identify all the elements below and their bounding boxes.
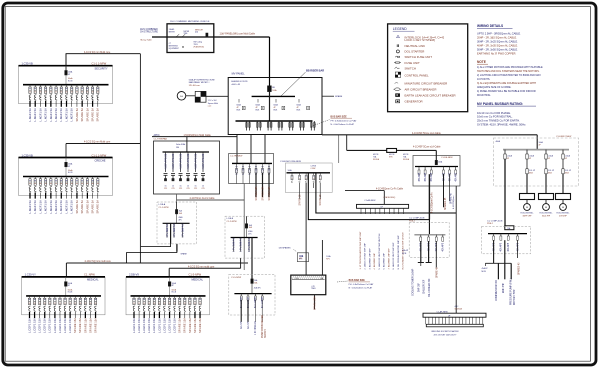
SPD fuse box xyxy=(387,149,397,153)
board L.DB-B enclosure xyxy=(225,216,265,258)
svg-text:400A: 400A xyxy=(496,140,501,143)
wire spare drop LDB-A xyxy=(176,244,178,252)
distribution board MEDICAL2 enclosure xyxy=(126,277,210,315)
MV panel enclosure xyxy=(228,78,322,135)
svg-text:SP.ARE 5A: SP.ARE 5A xyxy=(80,108,84,122)
svg-text:50HP - 2R, 3x50 SQmm AL.CABLE.: 50HP - 2R, 3x50 SQmm AL.CABLE. xyxy=(477,47,518,51)
svg-text:4-1C/2 SQ mm multi core: 4-1C/2 SQ mm multi core xyxy=(188,265,215,268)
svg-text:SP.ARE 15A: SP.ARE 15A xyxy=(88,318,92,333)
svg-text:COOLING TOWER 2x5HP: COOLING TOWER 2x5HP xyxy=(413,268,415,296)
svg-text:4.5SF APG 25: 4.5SF APG 25 xyxy=(194,153,197,169)
busbar CB1 xyxy=(414,234,445,236)
leader BB RISER BAR xyxy=(281,72,306,96)
svg-text:4P5: 4P5 xyxy=(248,234,251,236)
svg-text:2. LAGO 4T UNIT 5HP 2HP: 2. LAGO 4T UNIT 5HP 2HP xyxy=(364,243,367,270)
svg-text:20HP - 2R, 3&5 SQmm AL.CABLE.: 20HP - 2R, 3&5 SQmm AL.CABLE. xyxy=(477,36,517,40)
svg-text:L.CGF1 15A: L.CGF1 15A xyxy=(142,318,146,333)
wire metering to MV panel xyxy=(269,37,271,86)
svg-text:C25: C25 xyxy=(171,188,174,190)
svg-text:L.NGF1 5A: L.NGF1 5A xyxy=(54,108,58,122)
svg-text:BUS BAR SIZE: BUS BAR SIZE xyxy=(349,279,366,282)
svg-text:PRESSURE PUMP (P.M.): PRESSURE PUMP (P.M.) xyxy=(511,278,513,305)
svg-text:45A 4P5: 45A 4P5 xyxy=(418,172,421,181)
svg-text:SP.ARE 5A: SP.ARE 5A xyxy=(85,108,89,122)
MCB outgoing row MEDICAL2 xyxy=(133,296,135,298)
svg-text:BUS BAR SIZE: BUS BAR SIZE xyxy=(331,115,348,118)
svg-text:1.C35-VB: 1.C35-VB xyxy=(22,62,34,66)
svg-text:PH : 0.8x50x10mm Cu FLAT: PH : 0.8x50x10mm Cu FLAT xyxy=(331,120,358,123)
svg-text:1 Pc 3kW A/C: 1 Pc 3kW A/C xyxy=(248,237,251,252)
svg-text:C1-1-NPW: C1-1-NPW xyxy=(159,207,169,209)
motor M1 xyxy=(524,204,531,211)
svg-text:L.NGF1 5A: L.NGF1 5A xyxy=(49,108,53,122)
svg-text:5. LAGO OF UNIT 5HP 5HP UNIT 5: 5. LAGO OF UNIT 5HP 5HP UNIT 5H xyxy=(378,233,381,269)
svg-text:C25: C25 xyxy=(201,188,204,190)
UF2 tap-offs xyxy=(425,317,427,324)
board C1-5-NPW enclosure xyxy=(229,274,275,315)
svg-text:EARTHING No.'8' PWG COPPER.: EARTHING No.'8' PWG COPPER. xyxy=(477,51,516,55)
svg-text:SP.ARE 5A: SP.ARE 5A xyxy=(75,108,79,122)
incomer C1-5-NPW xyxy=(251,279,254,284)
CB2 outgoing bus xyxy=(485,262,511,264)
UF1 tap-offs xyxy=(360,208,362,214)
svg-text:C-NW: C-NW xyxy=(310,168,315,170)
svg-text:C1-AF-NEW: C1-AF-NEW xyxy=(364,199,375,202)
svg-text:ACJ 15: ACJ 15 xyxy=(247,321,250,329)
APFC incomer xyxy=(186,137,188,152)
svg-text:SP.ARE 15A: SP.ARE 15A xyxy=(73,318,77,333)
svg-text:FUSE UNIT: FUSE UNIT xyxy=(405,61,420,65)
board C1-TR-NEW enclosure xyxy=(229,154,274,184)
svg-text:10 POINTS.: 10 POINTS. xyxy=(477,78,490,81)
svg-text:L.CGF1 15A: L.CGF1 15A xyxy=(43,318,47,333)
svg-text:M: M xyxy=(562,207,564,209)
svg-text:4.5SF APG 25: 4.5SF APG 25 xyxy=(164,153,167,169)
wire feeder medical boards xyxy=(66,262,248,264)
busbar MEDICAL2 incoming xyxy=(126,276,210,278)
MCB outgoing row SECURITY xyxy=(29,85,31,87)
svg-text:C1-3-NPW: C1-3-NPW xyxy=(189,273,202,277)
svg-text:SF/45A: SF/45A xyxy=(373,158,380,161)
svg-text:SPARE 100A: SPARE 100A xyxy=(313,296,316,310)
svg-text:SP.ARE 5A: SP.ARE 5A xyxy=(80,200,84,214)
box 150A spare xyxy=(297,253,308,262)
svg-text:L.NGF1 5A: L.NGF1 5A xyxy=(70,200,74,214)
svg-text:11kV COMBINED METERING CUBICLE: 11kV COMBINED METERING CUBICLE xyxy=(170,21,210,23)
svg-text:SP.ARE 5A: SP.ARE 5A xyxy=(85,200,89,214)
busbar SECURITY internal xyxy=(23,84,109,86)
svg-text:L.NGF1 5A: L.NGF1 5A xyxy=(54,200,58,214)
svg-text:AIR CIRCUIT BREAKER: AIR CIRCUIT BREAKER xyxy=(405,87,437,91)
board C1-DB-NEW enclosure xyxy=(413,156,460,187)
incomer C1-DB-NEW xyxy=(435,150,437,160)
svg-text:C1-5-NPW: C1-5-NPW xyxy=(231,277,241,279)
svg-text:4) PANEL BOARD WILL BE SUITABL: 4) PANEL BOARD WILL BE SUITABLE FOR INDO… xyxy=(477,90,536,93)
svg-text:EARTH LEAKAGE CIRCUIT BREAKER: EARTH LEAKAGE CIRCUIT BREAKER xyxy=(405,93,456,97)
svg-text:MINIATURE CIRCUIT BREAKER: MINIATURE CIRCUIT BREAKER xyxy=(405,82,448,86)
svg-text:C1..NPW: C1..NPW xyxy=(84,273,95,277)
svg-text:SUPPLY: SUPPLY xyxy=(265,329,267,338)
svg-text:L.NGF1 5A: L.NGF1 5A xyxy=(59,108,63,122)
distribution board MEDICAL1 enclosure xyxy=(22,277,105,315)
svg-text:L.NGF1 5A: L.NGF1 5A xyxy=(28,108,32,122)
svg-text:C1-1.1-NPW: C1-1.1-NPW xyxy=(92,153,107,157)
svg-text:3) ALL EQUIPMENTS ARE DOUBLE E: 3) ALL EQUIPMENTS ARE DOUBLE EARTHED WIT… xyxy=(477,82,536,85)
svg-text:L.CGF1 15A: L.CGF1 15A xyxy=(132,318,136,333)
svg-text:L.CGF1 15A: L.CGF1 15A xyxy=(137,318,141,333)
svg-text:SPARES 15A: SPARES 15A xyxy=(268,186,271,201)
svg-text:30x4 7HP: 30x4 7HP xyxy=(542,216,551,218)
75A incomer box CB2 xyxy=(505,226,514,230)
wire APFC aux to LDB-B riser xyxy=(177,199,245,201)
svg-text:LEGEND: LEGEND xyxy=(393,27,407,31)
svg-text:N : 0.8x25x6mm Cu FLAT: N : 0.8x25x6mm Cu FLAT xyxy=(331,123,355,126)
svg-text:MOUNTING.: MOUNTING. xyxy=(477,94,491,97)
svg-text:LOCK 1 KEY SYSTEM]: LOCK 1 KEY SYSTEM] xyxy=(405,38,436,42)
svg-text:4-1C/4SF 5Core xLA-Cable: 4-1C/4SF 5Core xLA-Cable xyxy=(413,146,441,149)
leader BUS BAR SIZE MV xyxy=(311,120,330,127)
svg-text:L.CGF1 15A: L.CGF1 15A xyxy=(27,318,31,333)
svg-text:MEDICAL: MEDICAL xyxy=(87,278,99,282)
svg-text:L.NGF1 5A: L.NGF1 5A xyxy=(44,200,48,214)
wire L.DB-B to C1-5-NPW xyxy=(251,258,253,279)
svg-text:L.CGF1 15A: L.CGF1 15A xyxy=(48,318,52,333)
MCB outgoing row CRECHE xyxy=(29,177,31,179)
MCB outgoing row MEDICAL1 xyxy=(29,296,31,298)
svg-text:Muncy Table: Muncy Table xyxy=(141,40,153,42)
C1-DB-F7 motor branches xyxy=(504,150,506,154)
svg-text:EMF 3HP: EMF 3HP xyxy=(503,283,505,293)
board CB1 enclosure xyxy=(409,223,449,258)
svg-text:KP5: KP5 xyxy=(326,259,329,261)
heavy riser A to compressor board xyxy=(308,173,429,235)
MV incomer fuse switch xyxy=(268,86,272,92)
wire spare CB2 xyxy=(517,240,519,258)
svg-text:SF/45A: SF/45A xyxy=(403,158,410,161)
svg-text:L.CGF1 15A: L.CGF1 15A xyxy=(162,318,166,333)
svg-text:6. BLOWER 2HP: 6. BLOWER 2HP xyxy=(384,253,386,270)
wire feeder C1-DB-NEW xyxy=(346,135,348,151)
wires MV panel to C1-TR-NEW xyxy=(236,135,238,164)
svg-text:L.NGF1 5A: L.NGF1 5A xyxy=(44,108,48,122)
svg-text:SP.ARE 5A: SP.ARE 5A xyxy=(96,200,100,214)
svg-text:9. OIL COOLING MOTOR 5HP 3HP: 9. OIL COOLING MOTOR 5HP 3HP xyxy=(398,235,400,270)
changeover outgoing spare xyxy=(314,295,316,310)
svg-text:2.DB-V9: 2.DB-V9 xyxy=(129,273,139,277)
busbar C1-TR-NEW xyxy=(232,162,272,164)
motor M2 xyxy=(543,204,550,211)
svg-text:TRBL: TRBL xyxy=(184,33,188,35)
svg-text:METER: METER xyxy=(184,31,190,33)
svg-text:4P5: 4P5 xyxy=(178,219,181,221)
svg-text:45A 4P5: 45A 4P5 xyxy=(254,287,261,290)
svg-text:1 Pc 3kW A/C: 1 Pc 3kW A/C xyxy=(232,237,235,252)
svg-text:GENERATOR: GENERATOR xyxy=(405,100,423,104)
svg-text:L.CGF1 15A: L.CGF1 15A xyxy=(147,318,151,333)
svg-text:L.CGF1 15A: L.CGF1 15A xyxy=(53,318,57,333)
svg-text:1 Pc 3kW A/C: 1 Pc 3kW A/C xyxy=(166,223,169,238)
svg-text:L.NGF1 5A: L.NGF1 5A xyxy=(70,108,74,122)
svg-text:4-1C/6SQmm Cu-Fx: 4-1C/6SQmm Cu-Fx xyxy=(432,192,434,213)
svg-text:3. BLOWER 2HP 5HP: 3. BLOWER 2HP 5HP xyxy=(369,248,371,270)
svg-text:(PLANTRON): (PLANTRON) xyxy=(194,45,205,48)
incomer breaker CRECHE xyxy=(65,158,67,177)
svg-text:OH STRUCTURE: OH STRUCTURE xyxy=(140,32,158,34)
svg-text:EQUIPMENT: EQUIPMENT xyxy=(169,48,179,50)
svg-text:A-FDU 5: A-FDU 5 xyxy=(242,165,245,175)
svg-text:C1-TR-NEW: C1-TR-NEW xyxy=(230,156,243,158)
svg-text:METER: METER xyxy=(169,31,176,33)
svg-text:L.NGF1 5A: L.NGF1 5A xyxy=(38,108,42,122)
svg-text:L.NGF1 5A: L.NGF1 5A xyxy=(64,200,68,214)
svg-text:SWITCHES AND DOL STARTERS NEAR: SWITCHES AND DOL STARTERS NEAR THE MOTOR… xyxy=(477,70,540,73)
svg-text:SPARE 15: SPARE 15 xyxy=(299,194,302,206)
CB1 branches xyxy=(420,235,422,237)
svg-text:SP.ARE 5A: SP.ARE 5A xyxy=(75,200,79,214)
svg-text:1 Pc 3kW A/C: 1 Pc 3kW A/C xyxy=(181,223,184,238)
svg-text:1.C35-VY: 1.C35-VY xyxy=(25,273,37,277)
svg-text:4.5SF APG 25: 4.5SF APG 25 xyxy=(179,153,182,169)
svg-text:SP.ARE 15A: SP.ARE 15A xyxy=(183,318,187,333)
svg-text:40A 4P5: 40A 4P5 xyxy=(507,242,510,251)
svg-text:C1-1.1-NPW: C1-1.1-NPW xyxy=(92,62,107,66)
incomer breaker MEDICAL1 xyxy=(65,277,67,296)
board C-PDB enclosure xyxy=(285,163,332,192)
busbar C1-5-NPW xyxy=(234,293,271,295)
incomer breaker SECURITY xyxy=(65,66,67,85)
svg-text:MERCURY: MERCURY xyxy=(195,30,204,32)
svg-text:COMPRESSOR 30F: COMPRESSOR 30F xyxy=(496,279,498,301)
svg-text:L.CGF1 15A: L.CGF1 15A xyxy=(63,318,67,333)
busbar L.DB-A xyxy=(163,222,190,224)
svg-text:NOTE: NOTE xyxy=(477,60,486,64)
svg-text:C1-YYMVPAB: C1-YYMVPAB xyxy=(154,137,168,140)
branches L.DB-A xyxy=(166,223,168,237)
svg-text:MEDICAL: MEDICAL xyxy=(192,278,204,282)
busbar C1-DB-F7 xyxy=(503,149,569,151)
svg-text:SECURITY: SECURITY xyxy=(95,67,108,71)
svg-text:25x3 mm TINNED Cu FOR EARTH.: 25x3 mm TINNED Cu FOR EARTH. xyxy=(477,119,520,123)
svg-text:10x10 mm Cu FOR PHASE.: 10x10 mm Cu FOR PHASE. xyxy=(477,111,511,115)
svg-text:L.DB-B: L.DB-B xyxy=(227,218,234,220)
svg-text:SPARE: SPARE xyxy=(335,95,343,98)
svg-text:20% OUTLET 100% DUTY: 20% OUTLET 100% DUTY xyxy=(434,334,458,336)
svg-text:40A 4P5: 40A 4P5 xyxy=(442,242,445,251)
riser busbar in MV panel xyxy=(252,95,295,97)
svg-text:SPARE 40: SPARE 40 xyxy=(436,266,439,278)
svg-text:C1-DB-NEW: C1-DB-NEW xyxy=(441,157,453,159)
spare drops C-PDB xyxy=(299,183,301,199)
wire EB to changeover xyxy=(321,240,323,275)
busbar MEDICAL1 internal xyxy=(26,295,101,297)
svg-text:CONTROL PANEL: CONTROL PANEL xyxy=(405,73,429,77)
svg-text:5A 1xMCB: 5A 1xMCB xyxy=(254,297,257,308)
svg-text:L.CGF1 15A: L.CGF1 15A xyxy=(167,318,171,333)
svg-text:45H 4HP: 45H 4HP xyxy=(559,216,567,218)
svg-text:L.NGF1 5A: L.NGF1 5A xyxy=(33,200,37,214)
board L.DB-A enclosure xyxy=(157,202,197,244)
svg-text:core: core xyxy=(208,105,212,107)
C1-5-NPW branches xyxy=(240,294,242,296)
svg-text:4P5: 4P5 xyxy=(299,258,302,260)
svg-text:45A 4P5: 45A 4P5 xyxy=(455,172,458,181)
svg-text:A-FDU 5: A-FDU 5 xyxy=(235,165,238,175)
svg-text:L.NGF1 5A: L.NGF1 5A xyxy=(28,200,32,214)
svg-text:L.DB-A: L.DB-A xyxy=(159,203,166,206)
wire C-PDB to changeover DG side xyxy=(305,183,307,275)
svg-text:4-1C10SF 5Core xLA-Cable: 4-1C10SF 5Core xLA-Cable xyxy=(412,132,441,135)
svg-text:DM: DM xyxy=(176,147,179,149)
svg-text:1 Pc 3kW A/C: 1 Pc 3kW A/C xyxy=(173,223,176,238)
svg-text:L.NGF1 5A: L.NGF1 5A xyxy=(49,200,53,214)
svg-text:L.CGF1 15A: L.CGF1 15A xyxy=(68,318,72,333)
wire feeder APFC xyxy=(152,136,237,138)
UF strip 2 busway xyxy=(423,313,486,317)
svg-text:UPTO 2.5HP - 3R/5SQmm AL.CABLE: UPTO 2.5HP - 3R/5SQmm AL.CABLE. xyxy=(477,32,521,36)
svg-text:10x6 mm Cu FOR NEUTRAL.: 10x6 mm Cu FOR NEUTRAL. xyxy=(477,115,513,119)
CB2 load drops xyxy=(497,263,499,279)
wire DG to control panel xyxy=(186,95,195,97)
svg-text:CHILLER 30F: CHILLER 30F xyxy=(424,279,426,294)
svg-text:4-1C/2 SQ mm Multi core: 4-1C/2 SQ mm Multi core xyxy=(84,141,111,144)
svg-text:45A 4P5: 45A 4P5 xyxy=(424,172,427,181)
svg-text:SP.ARE 15A: SP.ARE 15A xyxy=(188,318,192,333)
svg-text:45A 4P: 45A 4P xyxy=(482,267,489,270)
busbar CRECHE incoming xyxy=(19,157,113,159)
svg-text:SP.ARE 5A: SP.ARE 5A xyxy=(90,200,94,214)
svg-text:ADEQUATE SIZE OF GI WIRE.: ADEQUATE SIZE OF GI WIRE. xyxy=(477,86,512,89)
isolator switch in metering xyxy=(176,34,179,37)
svg-text:40A 4P5: 40A 4P5 xyxy=(500,242,503,251)
svg-text:4-1C/4SQmm Cu-Fx Cable: 4-1C/4SQmm Cu-Fx Cable xyxy=(376,189,404,191)
DOL starter box M2 xyxy=(539,194,554,200)
svg-text:4-1C/2SQmm: 4-1C/2SQmm xyxy=(453,195,455,209)
MV outgoing breaker pairs xyxy=(246,121,248,131)
svg-text:7. BLOWER 2HP 5HP: 7. BLOWER 2HP 5HP xyxy=(388,248,390,270)
wire feeder main right xyxy=(322,134,537,136)
svg-text:ROLLING MILL: ROLLING MILL xyxy=(539,212,552,214)
branches L.DB-B xyxy=(233,238,235,252)
svg-text:L.NGF1 5A: L.NGF1 5A xyxy=(59,200,63,214)
svg-text:1.5C/4SQ[]mm Multi Cable: 1.5C/4SQ[]mm Multi Cable xyxy=(184,134,212,137)
svg-text:C1-DB/F7-NEW: C1-DB/F7-NEW xyxy=(556,136,572,138)
busbar C-PDB xyxy=(287,172,331,174)
svg-text:3PL 400 mm²: 3PL 400 mm² xyxy=(189,84,201,87)
svg-text:SPARE: SPARE xyxy=(181,253,188,256)
svg-text:L.CGF1 15A: L.CGF1 15A xyxy=(152,318,156,333)
svg-text:CRECHE: CRECHE xyxy=(95,158,106,162)
svg-text:4.5SF APG 25: 4.5SF APG 25 xyxy=(172,153,175,169)
svg-text:SP.ARE 15A: SP.ARE 15A xyxy=(78,318,82,333)
svg-text:L.NGF1 5A: L.NGF1 5A xyxy=(64,108,68,122)
wire feeder MEDICAL-2 xyxy=(169,267,240,269)
spare drop L.DB-B xyxy=(251,238,253,259)
UF2 outlet trunk xyxy=(426,324,483,327)
svg-text:ROLLING MILL: ROLLING MILL xyxy=(556,212,569,214)
C1-DB-NEW branches xyxy=(418,167,420,171)
svg-text:DB SPARES: DB SPARES xyxy=(279,247,291,250)
svg-text:4.5SF APG 25: 4.5SF APG 25 xyxy=(202,153,205,169)
distribution board CRECHE enclosure xyxy=(19,158,113,196)
svg-text:MOTOR 7.5HP: MOTOR 7.5HP xyxy=(514,289,516,305)
board CB2 enclosure xyxy=(482,226,531,254)
svg-text:L.NGF1 5A: L.NGF1 5A xyxy=(38,200,42,214)
busbar L.DB-B xyxy=(231,237,258,239)
DOL starter box M1 xyxy=(520,194,535,200)
svg-text:4. BLOWER 5HP: 4. BLOWER 5HP xyxy=(374,253,376,270)
svg-text:30HP - 2R, 3x25 SQmm AL.CABLE.: 30HP - 2R, 3x25 SQmm AL.CABLE. xyxy=(477,40,518,44)
wire C1-TR to LDB-B xyxy=(243,184,245,271)
svg-text:Square Multi: Square Multi xyxy=(208,102,219,105)
svg-text:4-1C/2 SQ mm Multi core: 4-1C/2 SQ mm Multi core xyxy=(84,51,111,54)
wire control panel to MV panel xyxy=(206,95,228,97)
svg-text:SP.ARE 15A: SP.ARE 15A xyxy=(193,318,197,333)
svg-text:5HP 30F: 5HP 30F xyxy=(419,282,421,292)
svg-text:ROLLING MILL: ROLLING MILL xyxy=(520,212,533,214)
svg-text:MCB: MCB xyxy=(482,271,487,273)
changeover switch box xyxy=(291,275,326,295)
svg-text:L.CGF1 15A: L.CGF1 15A xyxy=(157,318,161,333)
board C1-DB-F7 enclosure xyxy=(494,138,579,186)
wire feeder to board SECURITY xyxy=(66,54,140,71)
svg-text:N : 0.8x25x6mm Cu FLAT: N : 0.8x25x6mm Cu FLAT xyxy=(349,286,373,289)
svg-text:SWITCH FUSE UNIT: SWITCH FUSE UNIT xyxy=(405,55,433,59)
svg-text:+400Cu KF: +400Cu KF xyxy=(231,84,241,86)
svg-text:L.CGF1 15A: L.CGF1 15A xyxy=(58,318,62,333)
svg-text:WELDING SOCKETS 15A/230V: WELDING SOCKETS 15A/230V xyxy=(431,330,459,333)
heavy drop to compressor CB1 xyxy=(428,174,430,219)
svg-text:C25: C25 xyxy=(194,188,197,190)
MV panel main busbar xyxy=(236,120,313,122)
wire riser left vertical xyxy=(139,54,141,263)
wire feeder UF strip 1 xyxy=(345,190,384,192)
svg-text:NEUTRAL LINK: NEUTRAL LINK xyxy=(405,44,426,48)
svg-text:1. LT TROUGH MOTOR 5HP 3HP UNI: 1. LT TROUGH MOTOR 5HP 3HP UNIT xyxy=(360,231,362,270)
svg-text:A-FDU 5: A-FDU 5 xyxy=(248,165,251,175)
svg-text:C7A SF/40SQ: C7A SF/40SQ xyxy=(383,196,395,199)
generator DG set xyxy=(177,92,186,101)
svg-text:SP.ARE 15A: SP.ARE 15A xyxy=(83,318,87,333)
UF strip 1 busway xyxy=(357,204,409,208)
svg-text:4-1C/2 SQ mm multi core: 4-1C/2 SQ mm multi core xyxy=(85,260,112,263)
svg-text:4-1C/70mm Cu-Fx Cable: 4-1C/70mm Cu-Fx Cable xyxy=(190,198,216,200)
svg-text:600A 4P SUPERSTRUCTURE: 600A 4P SUPERSTRUCTURE xyxy=(189,79,216,82)
legend box xyxy=(388,24,468,112)
svg-text:SP.ARE 5A: SP.ARE 5A xyxy=(90,108,94,122)
wire feeder to board CRECHE xyxy=(66,143,140,145)
MV interlock symbols xyxy=(242,106,245,109)
svg-text:8. LAGO OF UNIT 5HP 2HP: 8. LAGO OF UNIT 5HP 2HP xyxy=(392,242,395,269)
svg-text:MAIN PANEL 'METER' #: MAIN PANEL 'METER' # xyxy=(189,81,211,84)
svg-text:(LB): (LB) xyxy=(195,32,198,34)
svg-text:M: M xyxy=(545,207,547,209)
leader BUS BAR SIZE changeover xyxy=(337,281,348,282)
wire feeder C-PDB xyxy=(338,135,340,163)
svg-text:L.CGF1 15A: L.CGF1 15A xyxy=(173,318,177,333)
svg-text:11kV PANEL(WK) core Multi Cabl: 11kV PANEL(WK) core Multi Cable xyxy=(220,33,256,36)
svg-text:C25: C25 xyxy=(179,188,182,190)
svg-text:BB RISER BAR: BB RISER BAR xyxy=(306,70,324,73)
svg-text:OIL COOLER 30F: OIL COOLER 30F xyxy=(429,278,431,297)
CT fuse in metering xyxy=(206,33,208,37)
CB2 branches xyxy=(493,234,495,236)
busbar MEDICAL1 incoming xyxy=(22,276,105,278)
wire L.DB-B col to feeder2 xyxy=(240,258,242,268)
long riser to welding strip 2 xyxy=(455,186,457,313)
metering cubicle box xyxy=(167,24,214,53)
svg-text:30HP 5HP: 30HP 5HP xyxy=(523,216,533,218)
svg-text:TWIN: TWIN xyxy=(311,288,316,290)
